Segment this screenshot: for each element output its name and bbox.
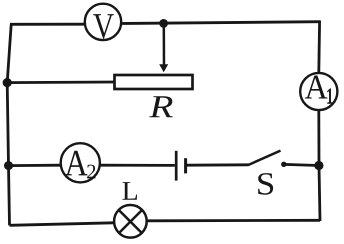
wire bottom rail left segment (corner to lamp) xyxy=(10,223,114,226)
wire left rail (top-left corner down to bottom-left corner) xyxy=(7,24,11,225)
wire right rail middle segment (A1 to right junction) xyxy=(317,110,320,166)
wire top rail right segment (voltmeter to top-right corner) xyxy=(122,22,321,24)
node top junction (wiper tap) xyxy=(159,19,168,28)
ammeter A2 xyxy=(61,143,100,182)
label R xyxy=(149,96,173,117)
wire top rail left segment (corner to voltmeter) xyxy=(10,23,85,26)
ammeter A1 xyxy=(300,73,337,110)
label L xyxy=(123,182,138,200)
node left upper junction xyxy=(3,78,12,87)
wire switch to right junction xyxy=(284,164,319,165)
wire left junction to ammeter A2 xyxy=(9,164,62,167)
rheostat R xyxy=(115,75,193,89)
lamp L xyxy=(114,205,147,238)
node left lower junction xyxy=(4,161,13,170)
wiper arrow to rheostat xyxy=(159,23,168,72)
node right junction xyxy=(314,161,323,170)
wire right rail top segment (corner to ammeter A1) xyxy=(317,21,321,74)
battery cell xyxy=(176,151,185,181)
switch S xyxy=(248,151,286,167)
voltmeter V xyxy=(85,4,121,40)
wire bottom rail right segment (lamp to bottom-right corner) xyxy=(148,219,321,222)
label S xyxy=(258,173,273,195)
wire left rail to rheostat xyxy=(7,81,114,84)
wire ammeter A2 to battery xyxy=(100,164,175,167)
wire right rail bottom segment (junction to bottom-right corner) xyxy=(319,166,320,222)
wire battery to switch xyxy=(187,163,249,166)
